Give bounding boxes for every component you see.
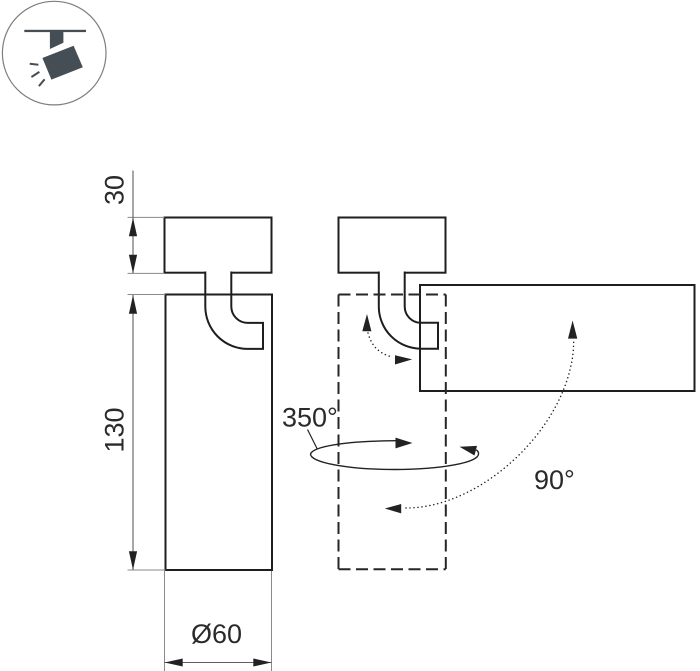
dim 130 line — [132, 295, 134, 570]
90 deg arrow left — [385, 504, 401, 513]
90 deg dotted arc — [406, 341, 574, 508]
svg-text:Ø60: Ø60 — [191, 619, 242, 649]
icon mount stem — [50, 32, 64, 49]
350 deg arrow left (right curl) — [460, 446, 478, 456]
dim 30 extension tick top — [128, 216, 165, 218]
right fixture body horizontal — [420, 285, 695, 391]
right fixture mount box — [339, 218, 446, 273]
svg-text:30: 30 — [100, 175, 130, 205]
icon light ray 1 — [30, 63, 39, 66]
icon light ray 2 — [31, 72, 39, 77]
dim 30 arrow up — [129, 218, 137, 236]
350 deg arrow right (top) — [396, 438, 413, 449]
icon ceiling bar — [24, 30, 86, 32]
dim 130 arrow up — [129, 295, 137, 314]
dim D60 line — [165, 662, 272, 664]
right fixture swivel arm — [379, 272, 438, 349]
icon circle badge — [2, 1, 106, 105]
dim 130 extension tick bottom — [128, 569, 166, 571]
dim 130 extension tick top — [128, 294, 166, 296]
dim D60 extension line right — [271, 571, 273, 671]
350 deg ellipse bottom arc with right curl — [311, 450, 479, 470]
dim D60 extension line left — [164, 571, 166, 671]
svg-text:90°: 90° — [534, 465, 575, 495]
small rotation arc (arm tilt) — [368, 333, 393, 357]
svg-text:350°: 350° — [282, 403, 338, 433]
dim 30 line — [132, 171, 134, 274]
left fixture body — [166, 295, 273, 571]
icon lamp head — [42, 46, 82, 80]
left fixture mount box — [165, 218, 272, 273]
dim D60 arrow left — [165, 659, 183, 667]
left fixture swivel arm — [205, 272, 263, 349]
350 deg leader line — [308, 430, 318, 449]
dim 130 arrow down — [129, 551, 137, 570]
dim D60 arrow right — [253, 659, 271, 667]
svg-text:130: 130 — [100, 407, 130, 452]
small rotation arrow right — [395, 355, 412, 364]
small rotation arrow up — [362, 314, 371, 331]
right fixture dashed body (vertical position) — [339, 295, 446, 570]
icon light ray 3 — [39, 79, 45, 86]
dim 30 extension tick bottom — [128, 272, 165, 274]
dim 30 arrow down — [129, 255, 137, 273]
350 deg ellipse top arc — [311, 441, 396, 454]
90 deg arrow up — [568, 321, 577, 339]
